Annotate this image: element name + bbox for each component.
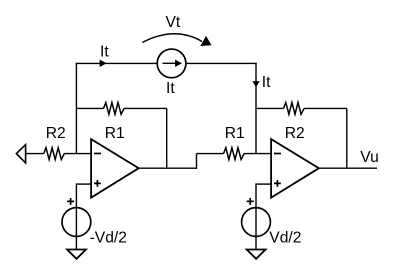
plus label of source V2 bbox=[247, 198, 254, 205]
wire from R1 to op-amp 2 inverting input bbox=[244, 153, 271, 155]
wire from input terminal to resistor R2 bbox=[26, 153, 44, 155]
wire from noninverting input down through source V1 to ground bbox=[75, 183, 77, 249]
current source I1 circle bbox=[157, 49, 186, 78]
voltage arc Vt bbox=[142, 34, 202, 43]
svg-text:-Vd/2: -Vd/2 bbox=[90, 230, 127, 247]
wire feedback down to op-amp 1 output bbox=[166, 108, 168, 168]
wire from R2 to op-amp 1 inverting input bbox=[64, 153, 91, 155]
svg-text:R2: R2 bbox=[46, 125, 66, 142]
svg-text:Vt: Vt bbox=[166, 14, 181, 31]
resistor R2 (right feedback) bbox=[284, 103, 305, 115]
svg-text:R1: R1 bbox=[105, 125, 125, 142]
resistor R2 (left input) bbox=[44, 148, 65, 160]
op-amp U1 minus sign bbox=[94, 153, 101, 155]
svg-text:It: It bbox=[100, 44, 109, 61]
arrowhead It down on right vertical bbox=[252, 81, 259, 87]
resistor R1 (right input) bbox=[224, 148, 245, 160]
svg-text:Vd/2: Vd/2 bbox=[269, 230, 301, 247]
wire op-amp 1 output bbox=[139, 167, 197, 169]
voltage arc arrowhead bbox=[200, 36, 211, 46]
wire op-amp 2 output Vu bbox=[319, 167, 377, 169]
wire top horizontal left segment bbox=[76, 62, 158, 64]
wire from R2 feedback to down wire bbox=[304, 107, 347, 109]
svg-text:R2: R2 bbox=[285, 125, 305, 142]
wire left vertical node from top wire to inverting input node bbox=[75, 63, 77, 153]
ground symbol right bbox=[247, 250, 266, 259]
wire top horizontal right segment bbox=[186, 62, 257, 64]
resistor R1 (left feedback) bbox=[104, 103, 125, 115]
op-amp U2 triangle bbox=[271, 139, 319, 198]
op-amp U1 plus sign bbox=[94, 180, 101, 187]
plus label of source V1 bbox=[67, 198, 74, 205]
arrowhead current direction It on top wire bbox=[100, 60, 107, 67]
wire op-amp 1 noninverting input bbox=[76, 183, 91, 185]
input terminal open arrow bbox=[16, 145, 25, 163]
op-amp U2 minus sign bbox=[274, 153, 281, 155]
wire from R1 feedback to down wire bbox=[124, 107, 167, 109]
svg-text:It: It bbox=[262, 74, 271, 91]
wire op-amp 2 noninverting input bbox=[256, 183, 271, 185]
op-amp U2 plus sign bbox=[274, 180, 281, 187]
wire from step to resistor R1 (right input) bbox=[197, 153, 224, 155]
wire right vertical node from top wire down to op-amp 2 input node bbox=[255, 63, 257, 154]
voltage source V1 circle bbox=[62, 208, 91, 237]
wire from noninverting input down through source V2 to ground bbox=[255, 183, 257, 249]
svg-text:Vu: Vu bbox=[360, 149, 379, 166]
wire feedback branch left from node to resistor R1 bbox=[76, 107, 103, 109]
svg-text:It: It bbox=[166, 80, 175, 97]
op-amp U1 triangle bbox=[91, 139, 139, 198]
ground symbol left bbox=[67, 250, 86, 259]
wire feedback down to op-amp 2 output bbox=[346, 108, 348, 168]
voltage source V2 circle bbox=[242, 208, 271, 237]
wire feedback branch right from node to resistor R2 bbox=[256, 107, 284, 109]
wire step up to second stage input level bbox=[196, 154, 198, 169]
current source I1 arrow bbox=[163, 62, 177, 64]
svg-text:R1: R1 bbox=[225, 125, 245, 142]
